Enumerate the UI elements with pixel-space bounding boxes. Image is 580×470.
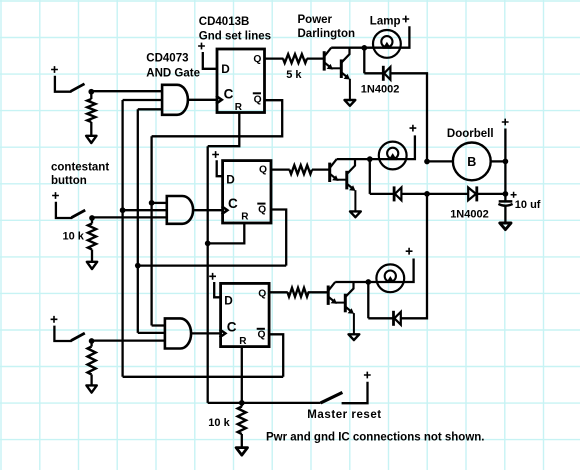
svg-text:CD4013B: CD4013B bbox=[199, 16, 250, 28]
wire lamp L3 chord bbox=[368, 281, 403, 283]
svg-text:10 uf: 10 uf bbox=[515, 199, 541, 211]
wire Q2 collector rail bbox=[337, 158, 370, 160]
node capacitor C1 junction bbox=[503, 191, 509, 197]
wire doorbell left lead bbox=[427, 160, 453, 162]
svg-text:Doorbell: Doorbell bbox=[447, 128, 494, 140]
transistor Q1b collector bbox=[341, 48, 349, 63]
resistor R2 pulldown bbox=[91, 218, 93, 224]
transistor Q2b base bar bbox=[345, 171, 348, 190]
resistor R5 bbox=[290, 165, 313, 174]
wire FF3 Qbar bus vertical bbox=[121, 100, 123, 377]
wire reset bus bottom horizontal bbox=[208, 402, 321, 404]
switch S1 arm bbox=[71, 84, 85, 92]
capacitor C1 + mark bbox=[511, 192, 517, 198]
wire R4 to Q1 base bbox=[307, 57, 324, 59]
wire FF2 Qbar bus to U1a input bbox=[138, 108, 162, 110]
wire Q1 emitter down bbox=[349, 79, 351, 100]
flip-flop U2a D+ terminal bbox=[198, 43, 205, 50]
wire D2 row right bbox=[401, 193, 427, 195]
ground Q2 emitter bbox=[350, 211, 361, 217]
wire Q2 emitter down bbox=[354, 190, 356, 211]
svg-text:Q: Q bbox=[253, 54, 261, 65]
wire L2 node down to D2 bbox=[369, 159, 371, 194]
ground Q3 emitter bbox=[349, 334, 360, 340]
wire S2 node to AND gate bbox=[92, 216, 167, 218]
transistor Q3b emitter bbox=[345, 307, 351, 312]
wire U1c output to FF3 clock bbox=[191, 332, 221, 334]
wire lamp L2 right lead bbox=[406, 135, 415, 159]
capacitor C1 plates bbox=[499, 200, 513, 203]
switch S3 + terminal bbox=[51, 316, 58, 323]
switch S1 + terminal bbox=[51, 66, 58, 73]
transistor Q2a base bar bbox=[328, 163, 331, 182]
wire doorbell + down bbox=[504, 129, 506, 202]
and-gate U1b bbox=[167, 196, 193, 224]
diode D3 bbox=[392, 311, 395, 326]
transistor Q1a emitter bbox=[324, 62, 330, 67]
ground S3 bbox=[86, 385, 96, 392]
lamp L3 filament bbox=[385, 271, 396, 282]
svg-text:D: D bbox=[226, 172, 235, 186]
diode D1 bbox=[382, 66, 385, 81]
svg-text:Master reset: Master reset bbox=[307, 409, 381, 421]
wire S1 node to AND gate bbox=[91, 90, 162, 92]
wire doorbell right lead bbox=[491, 160, 506, 162]
switch S3 arm bbox=[71, 333, 85, 341]
wire FF3 Qbar bus to U1a input bbox=[123, 99, 163, 101]
node lamp L3 junction bbox=[365, 279, 371, 285]
flip-flop U2b clock arrow bbox=[222, 206, 228, 214]
wire D4 to capacitor node bbox=[477, 193, 506, 195]
wire D1 row right bbox=[390, 73, 427, 161]
wire Q2 emitter-base link bbox=[337, 179, 347, 181]
lamp L1 filament bbox=[381, 36, 392, 47]
switch S2 + terminal bbox=[52, 192, 59, 199]
resistor R6 bbox=[288, 288, 309, 297]
wire U1b output to FF2 clock bbox=[193, 209, 223, 211]
wire lamp L3 right lead bbox=[403, 259, 413, 283]
switch master reset terminal bbox=[342, 382, 368, 404]
svg-text:B: B bbox=[467, 155, 476, 169]
ground Q1 emitter bbox=[345, 100, 356, 106]
svg-text:C: C bbox=[228, 196, 238, 211]
transistor Q2a collector bbox=[330, 159, 337, 168]
diode D2 bbox=[393, 186, 396, 201]
svg-text:R: R bbox=[241, 212, 249, 223]
wire FF1 Qbar bus to U1b input bbox=[152, 202, 167, 204]
wire Q3 emitter-base link bbox=[335, 302, 345, 304]
node lamp L1 junction bbox=[361, 45, 367, 51]
switch S2 wire bbox=[56, 202, 72, 218]
wire Q1 emitter-base link bbox=[331, 67, 341, 69]
wire R3 to ground bbox=[90, 375, 92, 386]
switch master reset arm bbox=[321, 392, 343, 403]
node D2 mix bus bbox=[424, 191, 430, 197]
and-gate U1a bbox=[162, 85, 188, 115]
flip-flop U2a clock arrow bbox=[216, 96, 222, 104]
resistor R4 5k bbox=[283, 54, 307, 63]
node doorbell left junction bbox=[424, 159, 430, 165]
wire D3 row right bbox=[401, 194, 427, 318]
wire C1 to ground bbox=[504, 207, 506, 223]
wire L1 node down to D1 bbox=[363, 48, 365, 73]
ground master reset bbox=[236, 448, 247, 456]
svg-text:Q: Q bbox=[254, 94, 262, 105]
flip-flop U3a D+ terminal bbox=[209, 273, 216, 280]
wire D3 row left bbox=[368, 317, 393, 319]
transistor Q3b collector bbox=[345, 282, 353, 297]
flip-flop U2a body bbox=[217, 49, 265, 113]
node switch S1 bbox=[88, 89, 94, 95]
svg-text:10 k: 10 k bbox=[208, 417, 230, 429]
wire FF3 Qbar bus to U1b input bbox=[123, 209, 167, 211]
svg-text:D: D bbox=[221, 62, 230, 76]
wire S3 node to AND gate bbox=[92, 339, 165, 341]
svg-text:Darlington: Darlington bbox=[298, 28, 356, 40]
wire FF2 Qbar bus vertical bbox=[137, 109, 139, 333]
node doorbell right junction bbox=[503, 159, 509, 165]
transistor Q2a emitter bbox=[330, 174, 336, 179]
lamp L1 + terminal bbox=[402, 16, 409, 23]
wire FF3 Qbar from FF3 bbox=[269, 334, 283, 377]
switch S3 wire bbox=[54, 326, 71, 341]
wire FF1 Qbar bus vertical bbox=[150, 136, 152, 325]
wire U3a D input bbox=[214, 282, 221, 297]
transistor Q3a emitter bbox=[328, 297, 334, 302]
svg-text:5 k: 5 k bbox=[286, 69, 302, 81]
wire D1 row left bbox=[364, 72, 383, 74]
flip-flop U3a clock arrow bbox=[220, 329, 226, 337]
svg-text:Q: Q bbox=[258, 330, 266, 341]
switch S1 wire bbox=[55, 76, 72, 92]
wire Q3 emitter down bbox=[353, 313, 355, 334]
wire R6 to Q3 base bbox=[308, 291, 329, 293]
svg-text:CD4073: CD4073 bbox=[146, 53, 188, 65]
wire FF3 R down bbox=[241, 347, 243, 403]
wire Q1 collector rail bbox=[331, 47, 364, 49]
lamp L2 body bbox=[379, 142, 407, 170]
lamp L2 + terminal bbox=[410, 125, 417, 132]
lamp L2 filament bbox=[387, 148, 398, 159]
wire FF3 Qbar return horizontal bbox=[123, 376, 284, 378]
wire reset branch to FF2 R bbox=[208, 223, 245, 243]
wire FF1 Q to R4 bbox=[265, 57, 284, 59]
lamp L1 body bbox=[373, 30, 401, 58]
resistor R1 pulldown bbox=[90, 92, 92, 99]
svg-text:button: button bbox=[51, 175, 87, 187]
wire FF2 Qbar bus to U1c input bbox=[138, 332, 165, 334]
node master reset junction bbox=[239, 400, 245, 406]
node reset bus FF2 branch bbox=[205, 241, 211, 247]
wire U2a D input bbox=[203, 52, 218, 69]
svg-text:Lamp: Lamp bbox=[370, 16, 401, 28]
svg-text:contestant: contestant bbox=[51, 162, 109, 174]
transistor Q1b emitter bbox=[341, 72, 347, 77]
doorbell B1 body bbox=[453, 143, 491, 181]
transistor Q3b base bar bbox=[344, 294, 347, 313]
wire FF3 Q to R6 bbox=[269, 291, 288, 293]
svg-text:Power: Power bbox=[298, 14, 333, 26]
wire R7 to ground bbox=[241, 434, 243, 447]
wire FF2 Q to R5 bbox=[271, 168, 290, 170]
transistor Q1a collector bbox=[324, 48, 331, 57]
wire FF1 R to reset bus bbox=[208, 113, 240, 147]
transistor Q3a base bar bbox=[327, 286, 330, 305]
svg-text:1N4002: 1N4002 bbox=[450, 209, 489, 221]
wire lamp L1 chord bbox=[364, 47, 400, 49]
ground S1 bbox=[86, 136, 96, 143]
ground C1 bbox=[500, 223, 511, 230]
transistor Q2b emitter bbox=[347, 184, 353, 189]
svg-text:Q: Q bbox=[258, 288, 266, 299]
transistor Q3a collector bbox=[328, 282, 335, 291]
and-gate U1c bbox=[165, 318, 191, 348]
flip-flop U3a body bbox=[221, 283, 270, 346]
flip-flop U2b body bbox=[223, 161, 271, 223]
wire mix bus to D4 bbox=[427, 193, 468, 195]
transistor Q1b base bar bbox=[340, 59, 343, 78]
svg-text:C: C bbox=[224, 87, 234, 102]
node FF1 Qbar bus / U1b input bbox=[149, 200, 155, 206]
wire FF2 Qbar return horizontal bbox=[138, 264, 286, 266]
svg-text:R: R bbox=[239, 336, 247, 347]
switch S2 arm bbox=[71, 210, 85, 218]
resistor R3 pulldown bbox=[90, 341, 92, 347]
lamp L3 + terminal bbox=[406, 248, 413, 255]
svg-text:1N4002: 1N4002 bbox=[361, 84, 400, 96]
master reset + terminal bbox=[364, 372, 371, 379]
svg-text:Q: Q bbox=[259, 165, 267, 176]
doorbell + terminal bbox=[502, 119, 509, 126]
wire lamp L1 right lead bbox=[400, 26, 409, 47]
wire FF1 Qbar from FF1 bbox=[152, 100, 283, 136]
svg-text:10 k: 10 k bbox=[63, 231, 85, 243]
transistor Q1a base bar bbox=[323, 51, 326, 70]
node FF2 Qbar junction bbox=[135, 263, 141, 269]
node lamp L2 junction bbox=[367, 156, 373, 162]
wire L3 node down to D3 bbox=[367, 282, 369, 318]
wire Q3 collector rail bbox=[335, 281, 368, 283]
flip-flop U2b D+ terminal bbox=[212, 151, 219, 158]
lamp L3 body bbox=[376, 264, 404, 292]
wire FF1 Qbar bus to U1c input bbox=[152, 324, 165, 326]
svg-text:C: C bbox=[227, 320, 237, 335]
diode D4 bbox=[468, 188, 476, 201]
wire R1 to ground bbox=[90, 122, 92, 136]
wire U2b D input bbox=[217, 160, 224, 176]
wire D2 row left bbox=[370, 193, 394, 195]
wire U1a output to FF1 clock bbox=[188, 99, 217, 101]
wire R5 to Q2 base bbox=[312, 168, 330, 170]
transistor Q2b collector bbox=[347, 159, 355, 174]
node switch S3 bbox=[89, 338, 95, 344]
svg-text:D: D bbox=[224, 293, 233, 307]
node switch S2 bbox=[89, 215, 95, 221]
svg-text:Pwr and gnd IC connections not: Pwr and gnd IC connections not shown. bbox=[266, 432, 485, 444]
wire FF2 Qbar from FF2 bbox=[271, 210, 286, 266]
svg-text:Q: Q bbox=[258, 205, 266, 216]
wire lamp L2 chord bbox=[370, 158, 406, 160]
resistor R7 master reset pulldown bbox=[241, 403, 243, 407]
wire R2 to ground bbox=[91, 250, 93, 262]
svg-text:Gnd set lines: Gnd set lines bbox=[199, 31, 271, 43]
wire reset bus vertical bbox=[207, 146, 209, 403]
svg-text:R: R bbox=[235, 102, 243, 113]
node FF3 Qbar bus / U1b input bbox=[120, 207, 126, 213]
ground S2 bbox=[87, 262, 97, 269]
svg-text:AND Gate: AND Gate bbox=[146, 68, 200, 80]
